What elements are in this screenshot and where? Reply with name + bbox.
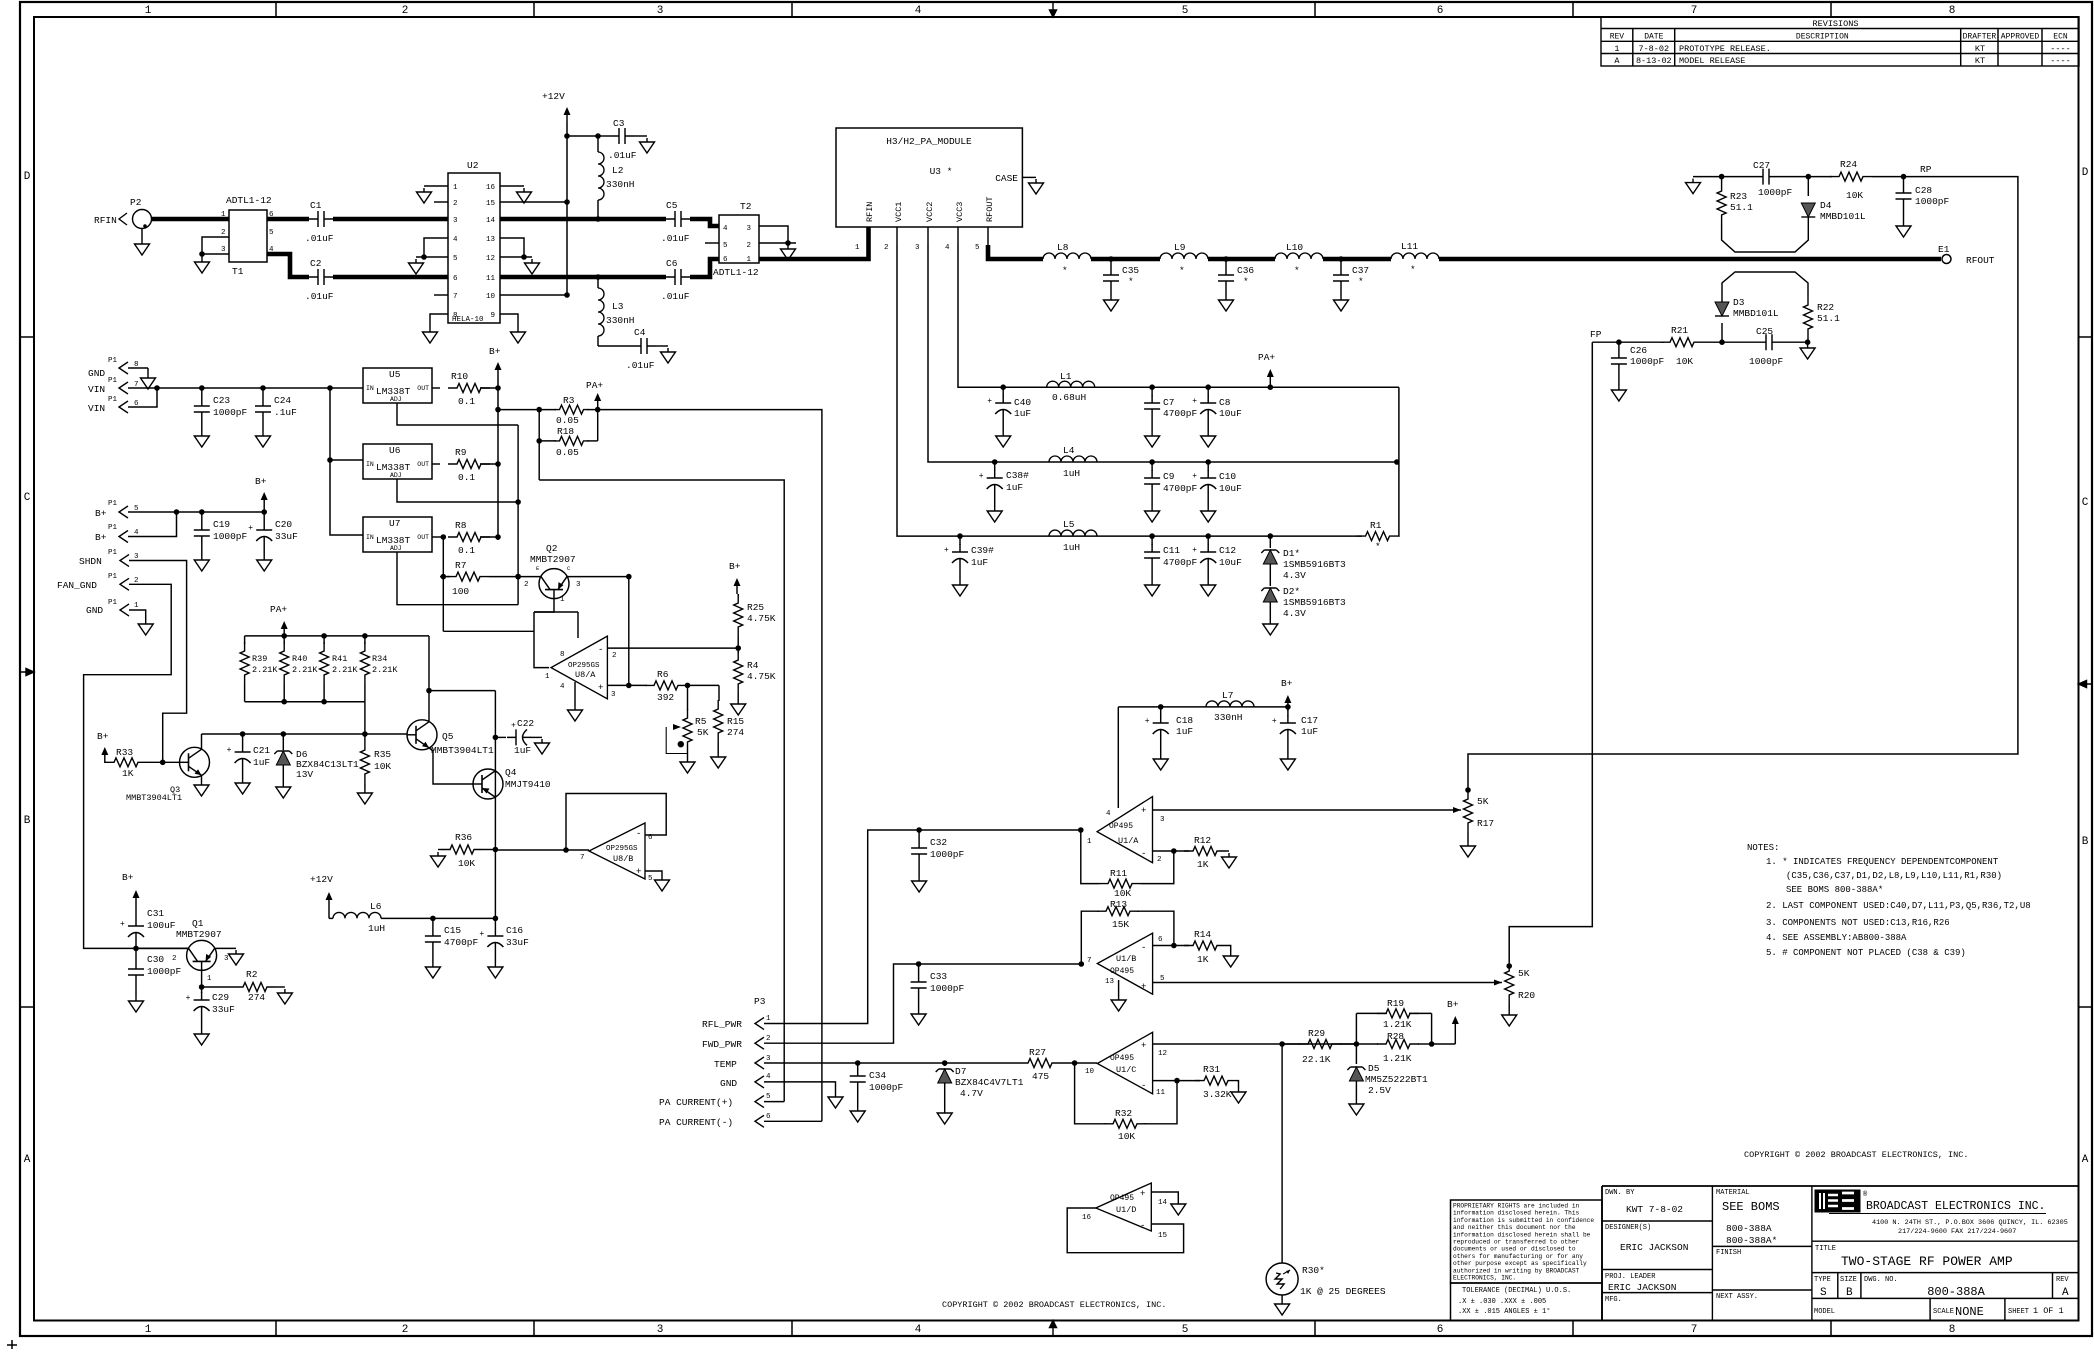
svg-text:1: 1: [145, 1324, 152, 1336]
svg-text:A: A: [2082, 1154, 2089, 1166]
ground at U3 CASE: [1029, 179, 1044, 194]
ground at U2 pin9: [511, 328, 526, 343]
svg-text:R15: R15: [727, 716, 744, 727]
svg-text:C21: C21: [253, 745, 270, 756]
svg-text:MMBD101L: MMBD101L: [1820, 211, 1866, 222]
shunt R18: [539, 440, 556, 442]
wire C5 to T2 pin4: [690, 219, 719, 226]
svg-text:C28: C28: [1915, 185, 1932, 196]
sheet center arrow top: [1050, 2, 1057, 17]
op-amp U1/B OP495: [1097, 933, 1152, 994]
svg-text:0.1: 0.1: [458, 396, 475, 407]
regulator U5 LM338T: [363, 368, 432, 403]
svg-text:MMJT9410: MMJT9410: [505, 779, 551, 790]
svg-text:.01uF: .01uF: [305, 233, 334, 244]
ground at C32: [912, 877, 927, 892]
wire R24 to C28 node: [1872, 176, 1904, 178]
svg-text:C22: C22: [517, 718, 534, 729]
svg-text:L2: L2: [612, 165, 624, 176]
ground at C38: [987, 507, 1002, 522]
svg-text:U8/B: U8/B: [613, 854, 633, 864]
resistor R6: [645, 681, 687, 690]
svg-text:+: +: [1272, 717, 1277, 726]
svg-text:P2: P2: [130, 197, 142, 208]
svg-text:IN: IN: [366, 385, 374, 392]
svg-text:11: 11: [486, 275, 496, 283]
wire R6 to R5 R15: [687, 684, 719, 686]
ground at C19: [194, 556, 209, 571]
ground at C3: [640, 138, 655, 153]
svg-text:3: 3: [1160, 816, 1165, 824]
svg-text:C23: C23: [213, 395, 230, 406]
svg-text:4.3V: 4.3V: [1283, 570, 1306, 581]
svg-text:6: 6: [1437, 1324, 1444, 1336]
svg-text:-: -: [1141, 849, 1146, 859]
capacitor C7: [1151, 387, 1153, 396]
wire U2 pin10: [500, 294, 567, 296]
svg-text:1K: 1K: [1197, 954, 1209, 965]
svg-text:330nH: 330nH: [606, 315, 635, 326]
svg-text:7-8-02: 7-8-02: [1638, 44, 1669, 54]
wire shunt left bar: [538, 410, 540, 480]
svg-text:1uF: 1uF: [514, 745, 531, 756]
svg-text:1 OF 1: 1 OF 1: [2033, 1306, 2064, 1316]
capacitor C10: [1207, 462, 1209, 471]
svg-text:D5: D5: [1368, 1063, 1380, 1074]
capacitor C5: [666, 211, 690, 227]
svg-text:10K: 10K: [1846, 190, 1863, 201]
ground at D2: [1263, 620, 1278, 635]
svg-text:274: 274: [248, 992, 265, 1003]
ground at P1 pin1: [138, 620, 153, 635]
svg-text:documents or used or disclosed: documents or used or disclosed to: [1453, 1246, 1576, 1253]
svg-text:1uF: 1uF: [1176, 726, 1193, 737]
svg-text:R20: R20: [1518, 990, 1535, 1001]
svg-text:A: A: [2062, 1287, 2069, 1299]
svg-text:TWO-STAGE RF POWER AMP: TWO-STAGE RF POWER AMP: [1841, 1254, 2013, 1269]
ground at R12: [1222, 853, 1237, 868]
svg-text:C6: C6: [666, 258, 678, 269]
svg-text:1000pF: 1000pF: [869, 1082, 904, 1093]
svg-text:1uF: 1uF: [971, 557, 988, 568]
svg-text:TYPE: TYPE: [1814, 1276, 1831, 1284]
ground at R20: [1502, 1011, 1517, 1026]
svg-text:10uF: 10uF: [1219, 408, 1242, 419]
svg-text:R29: R29: [1308, 1028, 1325, 1039]
svg-text:BROADCAST ELECTRONICS INC.: BROADCAST ELECTRONICS INC.: [1866, 1200, 2045, 1213]
svg-text:+: +: [1140, 1189, 1145, 1199]
svg-text:C4: C4: [634, 327, 646, 338]
ground at C36: [1219, 296, 1234, 311]
BE logo: [1815, 1190, 1860, 1212]
svg-text:4: 4: [560, 683, 565, 691]
wire +12V rail: [566, 123, 568, 295]
svg-text:4.3V: 4.3V: [1283, 608, 1306, 619]
svg-text:B+: B+: [255, 476, 267, 487]
svg-text:800-388A: 800-388A: [1726, 1223, 1772, 1234]
svg-text:4700pF: 4700pF: [1163, 557, 1198, 568]
wire Q1 base node: [201, 970, 203, 993]
wire R39 rail top: [245, 635, 429, 637]
wire rail to Q5 base line: [364, 702, 366, 734]
wire L8 to C35 node: [1091, 257, 1160, 262]
wire RP pickup loop: [1722, 224, 1809, 252]
resistor R11: [1099, 879, 1141, 888]
svg-text:B+: B+: [95, 532, 107, 543]
wire U1B minus node: [1153, 945, 1189, 947]
transformer T1: [229, 210, 267, 262]
svg-text:1000pF: 1000pF: [1758, 187, 1793, 198]
svg-text:MMBT3904LT1: MMBT3904LT1: [126, 793, 182, 803]
svg-text:1: 1: [1614, 44, 1619, 54]
ground at C20: [257, 556, 272, 571]
svg-text:2: 2: [884, 244, 889, 252]
ground at U8A: [568, 706, 583, 721]
svg-text:+: +: [479, 930, 484, 939]
svg-text:P1: P1: [108, 500, 118, 508]
svg-text:C35: C35: [1122, 265, 1139, 276]
svg-text:B+: B+: [95, 508, 107, 519]
svg-text:C: C: [24, 492, 31, 504]
inductor L11: [1391, 253, 1439, 259]
svg-text:B: B: [1846, 1287, 1853, 1299]
svg-text:D4: D4: [1820, 200, 1832, 211]
svg-text:1000pF: 1000pF: [1915, 196, 1950, 207]
svg-text:3: 3: [611, 691, 616, 699]
svg-text:8: 8: [1949, 1324, 1956, 1336]
svg-text:-: -: [636, 829, 641, 839]
svg-text:5K: 5K: [697, 727, 709, 738]
svg-text:R34: R34: [372, 654, 387, 664]
wire P3 GND: [764, 1082, 836, 1093]
svg-text:R13: R13: [1110, 899, 1127, 910]
svg-text:*: *: [1062, 265, 1068, 276]
svg-text:information disclosed herein.: information disclosed herein. This: [1453, 1210, 1580, 1217]
svg-text:C24: C24: [274, 395, 291, 406]
svg-text:DESCRIPTION: DESCRIPTION: [1796, 33, 1849, 42]
svg-text:MMBT2907: MMBT2907: [530, 554, 576, 565]
svg-text:P1: P1: [108, 377, 118, 385]
ground at U2 pin8: [423, 328, 438, 343]
svg-text:MMBT2907: MMBT2907: [176, 929, 222, 940]
module U3 H3/H2_PA_MODULE: [836, 128, 1022, 227]
svg-text:R4: R4: [747, 660, 759, 671]
svg-text:D7: D7: [955, 1066, 966, 1077]
svg-text:1: 1: [221, 211, 226, 219]
inductor L9: [1160, 253, 1208, 259]
svg-text:*: *: [1243, 276, 1249, 287]
svg-text:1uF: 1uF: [253, 757, 270, 768]
ground at C21: [235, 779, 250, 794]
wire U2 pin4 to pin5 node: [424, 238, 448, 257]
svg-text:4: 4: [453, 236, 458, 244]
svg-text:B+: B+: [1281, 678, 1293, 689]
svg-text:R41: R41: [332, 654, 347, 664]
svg-text:+: +: [248, 524, 253, 533]
sheet center arrow bottom: [1050, 1321, 1057, 1337]
capacitor C6: [666, 269, 690, 285]
ground at R35: [357, 789, 372, 804]
wire C1 to U2 pin3: [333, 217, 448, 222]
svg-text:10K: 10K: [374, 761, 391, 772]
svg-text:KT: KT: [1975, 44, 1985, 54]
svg-text:12: 12: [1158, 1050, 1167, 1058]
inductor L10: [1275, 253, 1323, 259]
svg-text:P1: P1: [108, 549, 118, 557]
svg-text:R24: R24: [1840, 159, 1857, 170]
ground at R14: [1223, 952, 1238, 967]
svg-text:4: 4: [723, 225, 728, 233]
svg-text:13: 13: [486, 236, 496, 244]
ground at P3: [828, 1093, 843, 1108]
svg-text:Q4: Q4: [505, 767, 517, 778]
resistor R13 feedback: [1137, 911, 1174, 945]
svg-text:33uF: 33uF: [275, 531, 298, 542]
wire U8B feedback loop: [566, 794, 666, 851]
svg-text:R2: R2: [246, 969, 258, 980]
svg-text:1uH: 1uH: [1063, 468, 1080, 479]
wire U3 CASE to ground: [1022, 176, 1036, 178]
wire T1 pin3 to ground: [202, 253, 229, 255]
svg-text:+: +: [1192, 472, 1197, 481]
ground at U1D plus: [1171, 1200, 1186, 1215]
svg-text:1: 1: [145, 5, 152, 17]
wire U8A minus input to divider: [607, 647, 738, 649]
svg-text:L6: L6: [370, 901, 382, 912]
svg-text:C8: C8: [1219, 397, 1231, 408]
ground at C16: [488, 963, 503, 978]
resistor R32: [1104, 1119, 1146, 1128]
capacitor C2: [309, 269, 333, 285]
capacitor C16: [494, 918, 496, 928]
svg-text:1000pF: 1000pF: [930, 983, 965, 994]
ground at C4: [656, 345, 668, 347]
ground at R31: [1231, 1088, 1246, 1103]
resistor R9: [432, 463, 440, 465]
resistor R15: [714, 700, 723, 742]
ground at C26: [1611, 386, 1626, 401]
svg-text:0.05: 0.05: [556, 447, 579, 458]
capacitor C21: [242, 734, 244, 744]
ground at C39: [953, 581, 968, 596]
capacitor C33: [918, 964, 920, 974]
svg-text:SHDN: SHDN: [79, 556, 102, 567]
ground at C9: [1145, 507, 1160, 522]
svg-text:R21: R21: [1671, 325, 1688, 336]
svg-text:3. COMPONENTS NOT USED:C13,R16: 3. COMPONENTS NOT USED:C13,R16,R26: [1766, 918, 1950, 928]
ground at C34: [850, 1107, 865, 1122]
wire R1 to L4 rail bus: [1398, 387, 1400, 536]
svg-text:NEXT ASSY.: NEXT ASSY.: [1716, 1293, 1758, 1301]
svg-text:C12: C12: [1219, 545, 1236, 556]
svg-text:8: 8: [560, 651, 565, 659]
svg-text:other purpose except as specif: other purpose except as specifically: [1453, 1260, 1587, 1267]
svg-text:10K: 10K: [1676, 356, 1693, 367]
svg-text:330nH: 330nH: [1214, 712, 1243, 723]
wire B+ to shunt bar: [498, 409, 539, 411]
svg-text:CASE: CASE: [995, 173, 1018, 184]
wire Q2 collector: [567, 576, 629, 578]
resistor R7: [447, 572, 489, 581]
ground at C29: [194, 1030, 209, 1045]
ground at D7: [937, 1109, 952, 1124]
inductor L1: [1047, 381, 1095, 387]
svg-text:P1: P1: [108, 524, 118, 532]
svg-text:R33: R33: [116, 747, 133, 758]
svg-text:PA CURRENT(+): PA CURRENT(+): [659, 1097, 733, 1108]
svg-text:2: 2: [524, 581, 529, 589]
svg-text:1000pF: 1000pF: [1749, 356, 1784, 367]
svg-text:+: +: [636, 867, 641, 877]
svg-text:4.7V: 4.7V: [960, 1088, 983, 1099]
svg-text:COPYRIGHT © 2002 BROADCAST ELE: COPYRIGHT © 2002 BROADCAST ELECTRONICS, …: [942, 1300, 1166, 1310]
svg-text:*: *: [1294, 265, 1300, 276]
wire VCC1 to L5 rail: [897, 245, 1362, 536]
diode D1 1SMB5916BT3: [1269, 536, 1271, 548]
svg-text:800-388A: 800-388A: [1927, 1285, 1985, 1299]
capacitor C28: [1903, 177, 1905, 185]
wire Q5 emitter to Q4 base: [429, 748, 473, 784]
svg-text:FINISH: FINISH: [1716, 1249, 1741, 1257]
wire L3 to C4: [598, 345, 632, 347]
svg-text:TEMP: TEMP: [714, 1059, 737, 1070]
svg-text:R11: R11: [1110, 868, 1127, 879]
capacitor C18: [1160, 707, 1162, 716]
svg-text:7: 7: [1691, 1324, 1698, 1336]
wire U1B output pin5 to R20: [1153, 982, 1495, 984]
wire R10 to B+: [480, 387, 498, 389]
wire TEMP line: [764, 1062, 1001, 1064]
svg-text:R32: R32: [1115, 1108, 1132, 1119]
svg-text:C10: C10: [1219, 471, 1236, 482]
svg-text:10: 10: [1085, 1068, 1095, 1076]
resistor R39: [244, 636, 246, 644]
svg-text:A: A: [24, 1154, 31, 1166]
ground at Q1: [229, 950, 244, 965]
svg-text:*: *: [1179, 265, 1185, 276]
ground at Q3 emitter: [201, 775, 203, 781]
transistor Q3 MMBT3904LT1: [180, 747, 210, 777]
svg-text:PA+: PA+: [1258, 352, 1275, 363]
resistor R41: [323, 636, 325, 644]
svg-text:10K: 10K: [458, 858, 475, 869]
wire U1D plus to ground: [1151, 1192, 1178, 1200]
svg-text:D3: D3: [1733, 297, 1745, 308]
wire U2 pin9 to ground: [500, 314, 518, 328]
svg-text:1uF: 1uF: [1006, 482, 1023, 493]
svg-text:22.1K: 22.1K: [1302, 1054, 1331, 1065]
svg-text:C37: C37: [1352, 265, 1369, 276]
svg-text:R23: R23: [1730, 191, 1747, 202]
svg-text:13: 13: [1105, 978, 1115, 986]
svg-text:3: 3: [746, 225, 751, 233]
wire U1A plus output to R17: [1153, 809, 1456, 811]
wire +12V to C3 and L2: [567, 135, 598, 137]
wire U2 pin5 to ground: [416, 256, 448, 258]
wire L7 rail: [1118, 706, 1288, 708]
svg-text:Q1: Q1: [192, 918, 204, 929]
ground at T2 pin2: [781, 245, 796, 260]
svg-text:0.05: 0.05: [556, 415, 579, 426]
svg-text:others for manufacturing or fo: others for manufacturing or for any: [1453, 1253, 1583, 1260]
sheet center arrow left: [20, 669, 34, 676]
ground at C30: [129, 997, 144, 1012]
svg-text:5: 5: [723, 242, 728, 250]
capacitor C32: [918, 830, 920, 840]
capacitor C4: [632, 338, 656, 354]
wire U1C minus node: [1153, 1080, 1200, 1082]
svg-text:+: +: [1141, 1041, 1146, 1051]
svg-text:2: 2: [1157, 856, 1162, 864]
svg-text:Q5: Q5: [442, 731, 454, 742]
svg-text:B+: B+: [97, 731, 109, 742]
ground at C23: [194, 432, 209, 447]
capacitor C39#: [959, 536, 961, 545]
svg-text:1. * INDICATES FREQUENCY DEPEN: 1. * INDICATES FREQUENCY DEPENDENTCOMPON…: [1766, 857, 1999, 867]
svg-text:C25: C25: [1756, 326, 1773, 337]
svg-text:6: 6: [1437, 5, 1444, 17]
wire P1 pin1 to ground: [129, 610, 146, 620]
op-amp U1/D OP495: [1096, 1183, 1152, 1231]
svg-text:GND: GND: [88, 368, 105, 379]
ground at C7: [1145, 432, 1160, 447]
svg-text:TOLERANCE (DECIMAL) U.O.S.: TOLERANCE (DECIMAL) U.O.S.: [1462, 1287, 1571, 1295]
ground at U8B plus: [655, 876, 670, 891]
svg-text:L5: L5: [1063, 519, 1075, 530]
svg-text:5: 5: [269, 229, 274, 237]
op-amp U8/A OP295GS: [551, 636, 607, 699]
wire T2 pin3 strap to pin2: [759, 226, 788, 243]
wire R39 rail bottom: [245, 701, 365, 703]
svg-text:R36: R36: [455, 832, 472, 843]
wire U2 pin16 to ground: [500, 185, 524, 187]
svg-text:information is submitted in co: information is submitted in confidence: [1453, 1217, 1594, 1224]
svg-text:.01uF: .01uF: [626, 360, 655, 371]
svg-text:1: 1: [545, 673, 550, 681]
svg-text:RFIN: RFIN: [94, 215, 117, 226]
svg-text:4700pF: 4700pF: [1163, 408, 1198, 419]
ground at P1 pin8: [147, 368, 149, 374]
svg-text:6: 6: [766, 1113, 771, 1121]
resistor R27: [1019, 1059, 1061, 1068]
svg-text:U7: U7: [389, 518, 400, 529]
svg-text:R40: R40: [292, 654, 307, 664]
ground at C33: [911, 1010, 926, 1025]
svg-text:15K: 15K: [1112, 919, 1129, 930]
svg-text:475: 475: [1032, 1071, 1049, 1082]
svg-text:KWT 7-8-02: KWT 7-8-02: [1626, 1204, 1683, 1215]
svg-text:B+: B+: [122, 872, 134, 883]
svg-text:2.21K: 2.21K: [372, 665, 398, 675]
svg-text:U5: U5: [389, 369, 401, 380]
svg-text:U3 *: U3 *: [930, 166, 953, 177]
svg-text:2: 2: [612, 652, 617, 660]
svg-text:E1: E1: [1938, 244, 1950, 255]
svg-text:VIN: VIN: [88, 384, 105, 395]
ground at C17: [1280, 755, 1295, 770]
svg-text:P3: P3: [754, 996, 766, 1007]
shunt R3: [539, 409, 556, 411]
inductor L7: [1206, 701, 1254, 707]
wire U8A V- to ground: [574, 682, 576, 706]
svg-text:SCALE: SCALE: [1933, 1308, 1954, 1316]
wire C2 to U2 pin6: [333, 275, 448, 280]
svg-text:7: 7: [1087, 957, 1092, 965]
svg-text:FP: FP: [1590, 329, 1602, 340]
svg-text:information disclosed herein s: information disclosed herein shall be: [1453, 1231, 1591, 1238]
svg-text:C18: C18: [1176, 715, 1193, 726]
capacitor C34: [857, 1063, 859, 1068]
